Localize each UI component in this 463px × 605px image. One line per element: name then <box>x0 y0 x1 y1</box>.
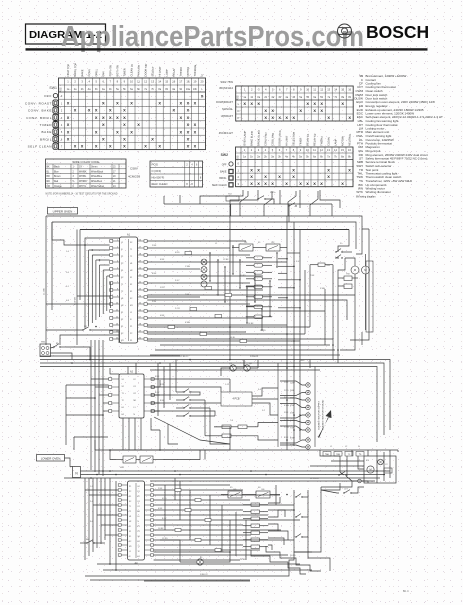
svg-text:X: X <box>250 181 253 186</box>
svg-text:X: X <box>271 115 274 120</box>
svg-text:T2: T2 <box>129 511 131 513</box>
svg-text:X: X <box>243 101 246 106</box>
note below wire color table <box>46 194 118 196</box>
svg-text:2-6: 2-6 <box>66 272 70 274</box>
svg-text:X: X <box>74 108 77 113</box>
svg-text:X: X <box>151 137 154 142</box>
svg-text:H1: H1 <box>138 556 140 558</box>
svg-text:2: 2 <box>74 80 76 84</box>
svg-text:7a: 7a <box>327 156 330 159</box>
svg-text:NOTE: FOR NUMBERS 14 - 16 TES: NOTE: FOR NUMBERS 14 - 16 TEST CIRCUITS … <box>46 194 118 196</box>
svg-text:X: X <box>292 115 295 120</box>
svg-text:8b: 8b <box>348 96 351 99</box>
wire color code table <box>46 159 127 188</box>
module A2 internal text and bottom drops <box>122 363 142 450</box>
svg-text:5: 5 <box>95 80 97 84</box>
control module A4 pins <box>118 484 153 556</box>
svg-text:X: X <box>194 122 197 127</box>
svg-text:T2: T2 <box>122 400 124 402</box>
svg-text:T1: T1 <box>129 506 131 508</box>
svg-text:8: 8 <box>293 148 295 152</box>
module A1 internal pin names <box>121 242 133 342</box>
svg-text:K2: K2 <box>138 506 140 508</box>
svg-text:MOTOR: MOTOR <box>340 136 344 146</box>
svg-text:6 GY: 6 GY <box>284 420 289 422</box>
switch table SW2 lower rotated labels <box>242 130 351 146</box>
wire A2 left zone horizontals <box>66 385 109 450</box>
svg-text:45CM/1112: 45CM/1112 <box>219 86 233 90</box>
svg-text:4a: 4a <box>285 156 288 159</box>
svg-text:TD: TD <box>359 454 362 456</box>
svg-text:6: 6 <box>279 148 281 152</box>
terminal boxes row above relay <box>323 452 364 457</box>
svg-text:X: X <box>341 101 344 106</box>
svg-text:X: X <box>320 101 323 106</box>
svg-text:OR: OR <box>47 186 51 188</box>
svg-text:L: L <box>201 88 203 91</box>
svg-text:X: X <box>130 101 133 106</box>
svg-text:DOOR SW: DOOR SW <box>143 63 147 76</box>
svg-text:MANUAL: MANUAL <box>222 107 233 111</box>
svg-text:X: X <box>327 174 330 179</box>
svg-text:S2: S2 <box>129 501 131 503</box>
wire lower bottom rails <box>90 564 312 581</box>
svg-text:2: 2 <box>61 110 63 113</box>
svg-text:18: 18 <box>186 80 189 84</box>
svg-text:4a: 4a <box>285 96 288 99</box>
svg-text:LAMP: LAMP <box>165 69 169 76</box>
wire module A1 right fanout <box>147 241 333 339</box>
svg-text:S2: S2 <box>121 277 123 279</box>
svg-text:N: N <box>75 472 78 476</box>
svg-text:P2: P2 <box>121 263 123 265</box>
oven lamp E1 lower <box>180 559 220 565</box>
svg-text:5a: 5a <box>116 88 119 91</box>
svg-text:K2: K2 <box>130 298 132 300</box>
svg-text:15: 15 <box>341 88 344 92</box>
svg-text:DOOR LOCK: DOOR LOCK <box>277 130 282 146</box>
svg-text:X: X <box>250 174 253 179</box>
svg-text:X: X <box>320 181 323 186</box>
svg-text:White/Red: White/Red <box>91 180 102 183</box>
wire fanout lattice verticals <box>209 245 277 330</box>
wire misc connections mid <box>151 360 278 451</box>
svg-text:1: 1 <box>61 102 63 105</box>
svg-text:4: 4 <box>265 88 267 92</box>
svg-text:5a: 5a <box>299 156 302 159</box>
svg-text:P1: P1 <box>129 486 131 488</box>
svg-text:2: 2 <box>251 148 253 152</box>
svg-text:3: 3 <box>73 176 75 178</box>
svg-text:LAMP: LAMP <box>333 138 337 145</box>
svg-text:2 BK: 2 BK <box>152 245 157 247</box>
svg-text:6: 6 <box>103 80 105 84</box>
switch SW2 position icons <box>212 153 233 187</box>
svg-text:L2 RD-16: L2 RD-16 <box>310 478 319 480</box>
svg-text:SELECT: SELECT <box>150 66 154 77</box>
svg-text:16: 16 <box>348 88 351 92</box>
svg-text:K1: K1 <box>138 501 140 503</box>
svg-text:1a: 1a <box>67 88 70 91</box>
svg-text:Orange: Orange <box>54 185 62 188</box>
svg-text:OFF: OFF <box>44 94 52 98</box>
wire bundle left of module A4 <box>85 478 118 560</box>
svg-text:BROIL: BROIL <box>40 137 52 141</box>
svg-text:SELF CLEAN: SELF CLEAN <box>212 184 227 187</box>
svg-text:O: O <box>237 109 240 113</box>
svg-text:F2: F2 <box>134 379 136 381</box>
wire bundle left of module A2 <box>91 340 109 476</box>
svg-text:A1: A1 <box>127 234 131 237</box>
svg-text:2: 2 <box>251 88 253 92</box>
svg-text:6: 6 <box>279 88 281 92</box>
svg-text:Red: Red <box>54 181 59 183</box>
logo BOSCH wordmark <box>366 22 429 42</box>
svg-text:5: 5 <box>73 181 75 183</box>
svg-text:MOTOR: MOTOR <box>186 67 190 77</box>
svg-text:X: X <box>123 144 126 149</box>
svg-text:17: 17 <box>113 171 116 173</box>
relay K5 <box>221 489 250 498</box>
svg-text:X: X <box>116 115 119 120</box>
switch table SW1 rotated column labels <box>66 63 204 77</box>
switch S3 upper right <box>335 249 352 253</box>
svg-text:K1: K1 <box>134 386 136 388</box>
svg-text:9: 9 <box>300 88 302 92</box>
svg-text:1: 1 <box>244 148 246 152</box>
svg-text:L1: L1 <box>138 516 140 518</box>
wire extra mesh upper right <box>147 253 369 363</box>
svg-text:5b: 5b <box>123 88 126 91</box>
svg-text:14: 14 <box>334 148 337 152</box>
svg-text:X: X <box>194 144 197 149</box>
svg-text:X: X <box>102 122 105 127</box>
svg-text:2 BK: 2 BK <box>158 488 163 490</box>
svg-text:TC: TC <box>348 454 351 456</box>
svg-text:TD2: TD2 <box>228 194 233 196</box>
svg-text:X: X <box>67 101 70 106</box>
svg-text:8: 8 <box>293 88 295 92</box>
svg-text:4 RD: 4 RD <box>162 498 167 500</box>
component chain right of module <box>246 256 272 319</box>
svg-text:T1: T1 <box>122 393 124 395</box>
svg-text:X: X <box>250 101 253 106</box>
svg-text:8 BK: 8 BK <box>284 437 289 439</box>
svg-text:T2: T2 <box>130 256 132 258</box>
cooling fan motor M1 <box>345 258 359 320</box>
door switch S6 lower <box>80 539 105 544</box>
svg-text:K6: K6 <box>262 489 265 491</box>
wire upper frame outer <box>46 216 369 330</box>
svg-text:5 BK: 5 BK <box>284 412 289 414</box>
svg-text:BAKE ELEM: BAKE ELEM <box>249 131 254 146</box>
svg-text:RELAY K2: RELAY K2 <box>312 133 316 146</box>
svg-text:WH/BK: WH/BK <box>79 171 87 173</box>
svg-text:12 BK: 12 BK <box>223 259 229 261</box>
switch table SW2 upper grid <box>236 86 354 121</box>
svg-text:P1: P1 <box>138 526 140 528</box>
svg-text:S1: S1 <box>122 379 124 381</box>
svg-text:SW2a: SW2a <box>270 192 276 194</box>
svg-text:SW1: SW1 <box>49 86 57 90</box>
wire bundle left of module A1 <box>44 222 120 345</box>
svg-text:1b: 1b <box>250 96 253 99</box>
svg-text:4b: 4b <box>109 88 112 91</box>
svg-text:3: 3 <box>237 182 239 186</box>
svg-text:17: 17 <box>179 80 182 84</box>
svg-text:9b: 9b <box>179 88 182 91</box>
svg-text:X: X <box>67 137 70 142</box>
svg-text:6: 6 <box>196 164 198 166</box>
svg-text:X: X <box>123 122 126 127</box>
svg-text:X: X <box>250 167 253 172</box>
svg-text:THERM: THERM <box>179 67 183 76</box>
svg-text:X: X <box>187 115 190 120</box>
svg-text:UPDRAFT: UPDRAFT <box>221 114 234 118</box>
svg-text:X: X <box>187 101 190 106</box>
svg-text:18 BK: 18 BK <box>240 559 246 561</box>
svg-text:7b: 7b <box>151 88 154 91</box>
svg-text:Blue: Blue <box>54 171 59 173</box>
svg-text:F1: F1 <box>130 277 132 279</box>
svg-text:6b: 6b <box>320 156 323 159</box>
svg-text:6b: 6b <box>320 96 323 99</box>
svg-text:10 RD: 10 RD <box>240 275 246 277</box>
transistor group Q2 <box>244 363 258 371</box>
svg-text:2b: 2b <box>264 96 267 99</box>
svg-text:S2: S2 <box>122 386 124 388</box>
svg-text:CONV: CONV <box>87 69 91 77</box>
wire module A4 right fanout <box>154 485 300 555</box>
svg-text:1: 1 <box>237 168 239 172</box>
svg-text:K1: K1 <box>121 326 123 328</box>
svg-text:RELAY K1: RELAY K1 <box>305 133 309 146</box>
svg-text:SELF CLEAN: SELF CLEAN <box>28 145 52 149</box>
svg-text:RELAY: RELAY <box>172 68 176 77</box>
svg-text:LOWER OVEN: LOWER OVEN <box>41 456 61 460</box>
svg-text:3: 3 <box>258 88 260 92</box>
relay K2 <box>260 242 287 251</box>
svg-text:10 BK: 10 BK <box>158 528 164 530</box>
svg-text:N: N <box>134 414 136 416</box>
svg-text:X: X <box>158 101 161 106</box>
junction dots extra <box>109 258 385 571</box>
svg-text:X: X <box>194 101 197 106</box>
svg-text:F1: F1 <box>129 526 131 528</box>
svg-text:BROIL: BROIL <box>219 177 227 180</box>
label box LOWER OVEN <box>37 455 65 462</box>
svg-text:X: X <box>313 181 316 186</box>
svg-text:White/Blue: White/Blue <box>91 175 103 178</box>
svg-text:T1: T1 <box>130 249 132 251</box>
svg-text:F2: F2 <box>121 319 123 321</box>
svg-text:H1: H1 <box>130 263 132 265</box>
svg-text:9a: 9a <box>172 88 175 91</box>
label connection for supply rotated <box>319 399 325 430</box>
wire lower right cluster feeds <box>310 456 368 494</box>
svg-text:9 BL: 9 BL <box>152 301 157 303</box>
wire lower feed rails <box>64 471 390 481</box>
pcb block A3 dashed <box>221 392 252 406</box>
svg-text:H2: H2 <box>129 521 131 523</box>
svg-text:T2: T2 <box>121 291 123 293</box>
svg-text:CONNECTION FOR SUPPLY: CONNECTION FOR SUPPLY <box>319 400 321 430</box>
svg-text:11: 11 <box>313 88 316 92</box>
svg-text:5: 5 <box>272 148 274 152</box>
svg-text:HI-LIMIT: HI-LIMIT <box>284 135 288 146</box>
svg-text:K2: K2 <box>121 333 123 335</box>
switch table SW1 row labels <box>25 94 63 148</box>
svg-text:NEUTRAL: NEUTRAL <box>347 133 351 146</box>
svg-text:OFF: OFF <box>222 163 227 166</box>
svg-text:5: 5 <box>61 131 63 134</box>
component pair lower mid <box>214 425 258 438</box>
svg-text:1-12: 1-12 <box>225 384 230 386</box>
svg-text:DOWNDRAFT: DOWNDRAFT <box>216 100 233 104</box>
svg-text:POS: POS <box>152 163 158 167</box>
svg-text:4: 4 <box>61 124 63 127</box>
transistor group Q1 <box>226 363 244 371</box>
svg-text:X: X <box>292 167 295 172</box>
svg-text:TAB: TAB <box>325 453 329 456</box>
svg-text:H2: H2 <box>122 414 124 416</box>
svg-text:12: 12 <box>144 80 147 84</box>
wire staircase lower right <box>85 487 321 576</box>
svg-text:H2: H2 <box>130 270 132 272</box>
svg-text:K3: K3 <box>366 460 369 462</box>
svg-text:X: X <box>109 144 112 149</box>
svg-text:S1: S1 <box>129 496 131 498</box>
svg-text:X: X <box>179 101 182 106</box>
svg-text:4 PCB: 4 PCB <box>233 398 240 401</box>
svg-text:1a: 1a <box>243 156 246 159</box>
svg-text:SW2: SW2 <box>221 153 228 157</box>
svg-text:10b: 10b <box>193 88 198 91</box>
svg-text:N: N <box>129 556 131 558</box>
svg-text:X: X <box>341 181 344 186</box>
svg-text:4 BK: 4 BK <box>160 315 165 317</box>
svg-text:10: 10 <box>306 148 309 152</box>
svg-text:3a: 3a <box>88 88 91 91</box>
svg-text:X: X <box>116 101 119 106</box>
svg-text:4-8: 4-8 <box>66 300 70 302</box>
svg-text:RD: RD <box>47 181 51 183</box>
svg-text:BAKE: BAKE <box>42 130 52 134</box>
svg-text:2a: 2a <box>74 88 77 91</box>
svg-text:X: X <box>271 108 274 113</box>
svg-text:CONV. BROIL: CONV. BROIL <box>26 116 52 120</box>
svg-text:6a: 6a <box>130 88 133 91</box>
wire right verticals lower <box>321 450 390 490</box>
svg-text:F2: F2 <box>129 531 131 533</box>
svg-text:L1: L1 <box>129 551 131 553</box>
svg-text:2a: 2a <box>257 96 260 99</box>
svg-text:HI(+500°F): HI(+500°F) <box>152 176 165 180</box>
svg-text:X: X <box>158 144 161 149</box>
svg-text:15: 15 <box>341 148 344 152</box>
relay coil group K4 <box>116 456 163 463</box>
svg-text:6 WH: 6 WH <box>185 322 191 324</box>
svg-text:X: X <box>130 129 133 134</box>
svg-text:CONV. ROAST: CONV. ROAST <box>25 101 52 105</box>
svg-text:5b: 5b <box>306 156 309 159</box>
svg-text:X: X <box>179 129 182 134</box>
svg-text:X: X <box>191 182 193 186</box>
svg-text:7b: 7b <box>334 156 337 159</box>
svg-text:K2: K2 <box>129 541 131 543</box>
svg-text:80- 4: 80- 4 <box>403 590 409 593</box>
svg-text:Green: Green <box>91 166 98 169</box>
svg-text:7 BK: 7 BK <box>310 275 315 277</box>
svg-text:K2: K2 <box>134 393 136 395</box>
svg-text:4: 4 <box>88 80 90 84</box>
svg-text:7: 7 <box>61 146 63 149</box>
switch table SW2 lower grid <box>236 147 354 187</box>
svg-text:10a: 10a <box>186 88 191 91</box>
svg-text:5a: 5a <box>299 96 302 99</box>
svg-text:16 BL: 16 BL <box>230 337 236 339</box>
svg-text:M1: M1 <box>121 340 124 342</box>
svg-text:2: 2 <box>186 164 188 166</box>
svg-text:CLEAN: CLEAN <box>326 137 330 146</box>
wire table drop entries <box>164 191 332 222</box>
svg-text:1-4: 1-4 <box>66 251 70 253</box>
svg-text:CS8V: CS8V <box>130 167 138 171</box>
svg-text:K1: K1 <box>130 291 132 293</box>
svg-text:6 BK: 6 BK <box>160 259 165 261</box>
svg-text:20: 20 <box>113 176 116 178</box>
svg-text:K1: K1 <box>245 242 248 244</box>
svg-text:X: X <box>172 108 175 113</box>
svg-text:X: X <box>187 122 190 127</box>
svg-text:BAKE: BAKE <box>80 69 84 76</box>
wire rail y450 left extension <box>95 440 230 451</box>
svg-text:3: 3 <box>258 148 260 152</box>
svg-text:X: X <box>109 115 112 120</box>
watermark AppliancePartsPros.com <box>61 21 364 53</box>
svg-text:GRILL: GRILL <box>94 68 98 76</box>
module A4 internal pin names <box>129 486 140 558</box>
svg-text:F2: F2 <box>138 496 140 498</box>
svg-text:WH/BL: WH/BL <box>79 176 87 178</box>
svg-text:45CM/1127: 45CM/1127 <box>219 131 234 135</box>
svg-text:COOL FAN: COOL FAN <box>270 133 274 146</box>
svg-text:L: L <box>238 102 240 106</box>
svg-text:BROIL ELEM: BROIL ELEM <box>256 130 261 146</box>
svg-text:14: 14 <box>158 80 161 84</box>
svg-text:6: 6 <box>73 186 75 188</box>
svg-text:M1: M1 <box>134 400 137 402</box>
svg-text:8a: 8a <box>341 96 344 99</box>
control module A1 upper oven <box>120 234 138 344</box>
svg-text:C2: C2 <box>385 464 388 466</box>
convection motor M2 <box>362 254 370 330</box>
svg-text:X: X <box>306 181 309 186</box>
svg-text:13: 13 <box>151 80 154 84</box>
svg-text:20: 20 <box>201 80 204 84</box>
svg-text:12: 12 <box>320 88 323 92</box>
svg-text:H2: H2 <box>121 305 123 307</box>
svg-text:X: X <box>81 144 84 149</box>
svg-text:X: X <box>278 174 281 179</box>
svg-text:TH2: TH2 <box>346 274 351 276</box>
svg-text:HI-LIMIT: HI-LIMIT <box>158 66 162 77</box>
legend component list <box>354 74 443 194</box>
svg-text:X: X <box>102 101 105 106</box>
svg-text:N: N <box>138 521 140 523</box>
svg-text:CONV FAN: CONV FAN <box>263 132 267 146</box>
svg-text:TH1: TH1 <box>326 265 331 267</box>
